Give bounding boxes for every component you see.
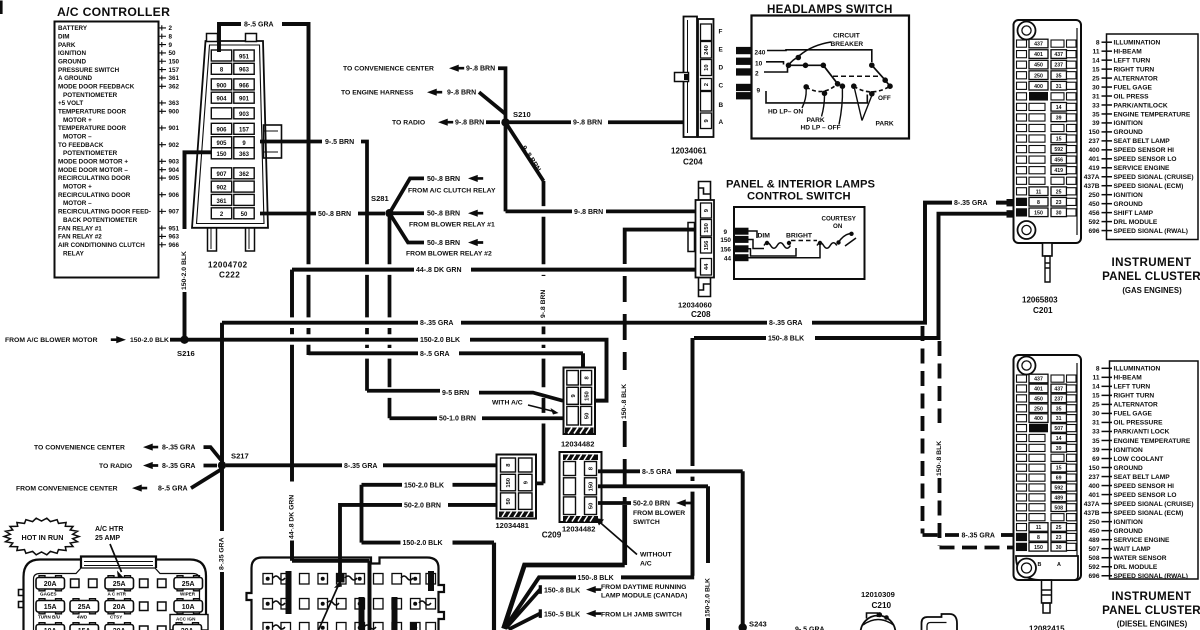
- svg-text:250: 250: [1034, 406, 1043, 412]
- svg-text:A/C CONTROLLER: A/C CONTROLLER: [57, 5, 170, 19]
- svg-text:50-1.0 BRN: 50-1.0 BRN: [439, 416, 476, 423]
- wire without A/C branch vertical x624 bottom: [504, 505, 625, 629]
- svg-text:401: 401: [1088, 492, 1099, 499]
- C204 pin letters: [719, 29, 724, 127]
- arrow from convenience: [132, 485, 147, 492]
- cluster C201 stem: [1043, 243, 1053, 256]
- svg-text:10: 10: [755, 61, 763, 68]
- svg-text:FROM BLOWER RELAY #2: FROM BLOWER RELAY #2: [406, 250, 492, 257]
- arrow blower switch: [676, 499, 691, 506]
- svg-text:MODE DOOR MOTOR +: MODE DOOR MOTOR +: [58, 159, 128, 166]
- wire 150-.8 BLK to fan: [505, 577, 577, 628]
- svg-text:50-.8 BRN: 50-.8 BRN: [427, 176, 460, 183]
- wire S281 branch blower relay 2: [390, 213, 425, 242]
- svg-text:150-2.0 BLK: 150-2.0 BLK: [403, 540, 443, 547]
- arrow TO ENGINE HARNESS: [427, 89, 442, 96]
- HOT IN RUN starburst: [4, 518, 79, 555]
- bulkhead terminal dots: [266, 577, 418, 630]
- svg-text:456: 456: [1054, 158, 1063, 164]
- svg-text:C222: C222: [219, 271, 240, 280]
- svg-text:14: 14: [1056, 436, 1062, 442]
- wire stub to S217: [204, 447, 222, 460]
- svg-text:F: F: [719, 29, 723, 36]
- svg-text:9-.8 BRN: 9-.8 BRN: [466, 66, 495, 73]
- svg-text:8: 8: [1037, 200, 1040, 206]
- callout PARK right V: [855, 89, 872, 121]
- svg-text:A C HTR: A C HTR: [108, 591, 127, 596]
- svg-text:B: B: [1038, 562, 1042, 568]
- svg-text:C210: C210: [872, 601, 892, 610]
- svg-text:456: 456: [1088, 210, 1099, 217]
- splice S216 junction dot: [180, 336, 188, 344]
- fuse 10A RADIO: [174, 601, 203, 613]
- svg-text:437A: 437A: [1084, 174, 1100, 181]
- svg-text:400: 400: [1034, 416, 1043, 422]
- svg-text:SHIFT LAMP: SHIFT LAMP: [1114, 210, 1154, 217]
- svg-text:MODE DOOR FEEDBACK: MODE DOOR FEEDBACK: [58, 83, 135, 90]
- svg-text:150-.8 BLK: 150-.8 BLK: [936, 441, 943, 476]
- svg-text:14: 14: [1092, 57, 1100, 64]
- svg-text:TO FEEDBACK: TO FEEDBACK: [58, 142, 104, 149]
- svg-text:RECIRCULATING DOOR: RECIRCULATING DOOR: [58, 192, 131, 199]
- svg-text:SPEED SENSOR HI: SPEED SENSOR HI: [1114, 483, 1175, 490]
- svg-text:25: 25: [1092, 402, 1100, 409]
- terminal row1 c: [140, 579, 149, 588]
- svg-text:FROM BLOWER RELAY #1: FROM BLOWER RELAY #1: [409, 221, 495, 228]
- svg-text:PARK: PARK: [58, 42, 76, 49]
- bulkhead internal callout arrow: [319, 585, 339, 630]
- svg-text:157: 157: [169, 67, 180, 74]
- svg-text:8-.5 GRA: 8-.5 GRA: [158, 486, 188, 493]
- svg-text:9: 9: [757, 88, 761, 95]
- svg-text:SEAT BELT LAMP: SEAT BELT LAMP: [1114, 138, 1171, 145]
- svg-text:GROUND: GROUND: [1114, 201, 1144, 208]
- svg-text:9-.8 BRN: 9-.8 BRN: [574, 209, 603, 216]
- diesel cluster wire tab pin150: [1017, 543, 1027, 550]
- svg-text:50: 50: [241, 212, 248, 218]
- svg-text:907: 907: [216, 172, 227, 178]
- wire stub radio to S217: [204, 464, 218, 468]
- wire 44-.8 DK GRN to C208 pin 44: [471, 268, 697, 272]
- svg-text:SEAT BELT LAMP: SEAT BELT LAMP: [1114, 474, 1171, 481]
- wire 8-.35 GRA continues right: [461, 321, 767, 325]
- svg-text:69: 69: [1092, 456, 1100, 463]
- svg-text:COURTESY: COURTESY: [822, 215, 857, 222]
- wire 9-.5 BRN vertical x367: [361, 142, 367, 265]
- svg-text:450: 450: [1034, 396, 1043, 402]
- svg-text:15: 15: [1092, 393, 1100, 400]
- svg-text:237: 237: [1054, 63, 1063, 69]
- svg-text:250: 250: [1088, 519, 1099, 526]
- wire vertical x543 down to 12034481 pin 9: [533, 181, 544, 483]
- svg-text:400: 400: [1088, 147, 1099, 154]
- svg-text:489: 489: [1054, 495, 1063, 501]
- gas cluster pin list: [1084, 40, 1194, 235]
- svg-text:C: C: [719, 83, 724, 90]
- svg-text:508: 508: [1088, 555, 1099, 562]
- svg-text:44: 44: [704, 263, 710, 270]
- svg-text:B: B: [719, 102, 724, 109]
- wire 9-.8 BRN S210 to C204: [509, 120, 571, 124]
- headlamps internal wire 2: [764, 68, 788, 73]
- svg-text:8-.35 GRA: 8-.35 GRA: [420, 320, 453, 327]
- arrow convenience lower: [143, 444, 158, 451]
- svg-text:25: 25: [1056, 525, 1062, 531]
- svg-text:39: 39: [1056, 115, 1062, 121]
- svg-text:31: 31: [1092, 93, 1100, 100]
- svg-text:ALTERNATOR: ALTERNATOR: [1114, 402, 1159, 409]
- fuse block inner border: [34, 568, 200, 630]
- cluster C201 gas terminal rows: [1017, 39, 1077, 216]
- svg-text:50-2.0 BRN: 50-2.0 BRN: [404, 502, 441, 509]
- svg-text:LOW COOLANT: LOW COOLANT: [1114, 456, 1164, 463]
- terminal row3 b: [158, 626, 167, 630]
- svg-text:951: 951: [169, 225, 180, 232]
- svg-text:8-.35 GRA: 8-.35 GRA: [954, 200, 987, 207]
- svg-text:8: 8: [169, 33, 173, 40]
- svg-text:LEFT TURN: LEFT TURN: [1114, 57, 1151, 64]
- callout PARK left: [822, 96, 825, 117]
- svg-text:150: 150: [1088, 129, 1099, 136]
- svg-text:IGNITION: IGNITION: [1114, 192, 1144, 199]
- svg-text:SPEED SIGNAL (RWAL): SPEED SIGNAL (RWAL): [1114, 573, 1189, 580]
- svg-text:50-.8 BRN: 50-.8 BRN: [427, 240, 460, 247]
- svg-text:S281: S281: [371, 194, 390, 203]
- svg-text:44: 44: [724, 255, 732, 262]
- svg-text:RECIRCULATING DOOR FEED-: RECIRCULATING DOOR FEED-: [58, 209, 151, 216]
- wire into cluster pin 8: [996, 201, 1013, 205]
- svg-text:DRL MODULE: DRL MODULE: [1114, 219, 1158, 226]
- svg-text:8: 8: [1037, 535, 1040, 541]
- headlamps internal wire 9 bottom rail: [766, 91, 867, 103]
- wire diagonal S210 down-right: [506, 122, 544, 181]
- wire S281 vertical down x389: [388, 213, 392, 418]
- label 150-.8 BLK daytime stub bar: [539, 585, 542, 594]
- svg-text:IGNITION: IGNITION: [1114, 519, 1144, 526]
- svg-text:157: 157: [239, 128, 250, 134]
- fuse 25A 4WD: [70, 601, 99, 613]
- svg-text:POTENTIOMETER: POTENTIOMETER: [63, 150, 118, 157]
- svg-text:MODE DOOR MOTOR –: MODE DOOR MOTOR –: [58, 167, 128, 174]
- wire diagonal stub to S210: [479, 92, 506, 114]
- connector 12034482 with A/C body: [564, 368, 596, 435]
- wire 150-.8 BLK vertical x692.5: [691, 338, 695, 576]
- svg-text:FROM A/C CLUTCH RELAY: FROM A/C CLUTCH RELAY: [408, 187, 496, 194]
- panel lamps internal wires: [749, 231, 821, 258]
- svg-text:437A: 437A: [1084, 501, 1100, 508]
- callout line WITHOUT A/C: [599, 522, 637, 555]
- wire into 12034481 pin 8: [383, 463, 498, 467]
- svg-text:12065803: 12065803: [1022, 296, 1058, 305]
- svg-text:2: 2: [704, 83, 710, 86]
- svg-text:450: 450: [1088, 201, 1099, 208]
- headlamps switch box: [752, 16, 910, 139]
- terminal row3 a: [140, 626, 149, 630]
- svg-text:INSTRUMENT: INSTRUMENT: [1112, 256, 1192, 269]
- fuse block outline: [24, 560, 207, 630]
- svg-text:419: 419: [1088, 165, 1099, 172]
- svg-text:BACK POTENTIOMETER: BACK POTENTIOMETER: [63, 217, 138, 224]
- svg-text:363: 363: [169, 100, 180, 107]
- svg-text:OFF: OFF: [878, 95, 891, 102]
- svg-text:4WD: 4WD: [77, 614, 88, 619]
- connector C208 lower extension: [699, 278, 711, 297]
- dashed wire into diesel pin 8: [1001, 533, 1016, 537]
- svg-text:FROM DAYTIME RUNNING: FROM DAYTIME RUNNING: [601, 584, 686, 591]
- svg-text:PANEL CLUSTER: PANEL CLUSTER: [1102, 270, 1200, 283]
- svg-text:150-.5 BLK: 150-.5 BLK: [544, 611, 580, 618]
- svg-text:12034482: 12034482: [562, 525, 595, 534]
- svg-text:8-.35 GRA: 8-.35 GRA: [162, 463, 195, 470]
- diesel cluster stem: [1042, 580, 1052, 603]
- 12034482 upper hatch strip: [565, 428, 594, 434]
- svg-text:8-.35 GRA: 8-.35 GRA: [769, 320, 802, 327]
- svg-text:150: 150: [584, 391, 590, 401]
- wire to S281 dot: [358, 212, 385, 216]
- svg-text:400: 400: [1034, 84, 1043, 90]
- svg-text:25A: 25A: [113, 581, 126, 588]
- connector C222 body: [192, 41, 268, 228]
- svg-text:FAN RELAY #2: FAN RELAY #2: [58, 234, 102, 241]
- svg-text:250: 250: [1034, 73, 1043, 79]
- svg-text:WIPER: WIPER: [180, 591, 196, 596]
- svg-text:507: 507: [1088, 546, 1099, 553]
- svg-text:12034482: 12034482: [561, 439, 594, 448]
- svg-text:12082415: 12082415: [1029, 625, 1065, 630]
- svg-text:9-5 BRN: 9-5 BRN: [442, 390, 469, 397]
- svg-text:MOTOR +: MOTOR +: [63, 117, 92, 124]
- svg-text:437: 437: [1054, 387, 1063, 393]
- label 150-.5 BLK jamb bar: [539, 609, 542, 618]
- svg-text:450: 450: [1088, 528, 1099, 535]
- dome lamp C210 bulb: [861, 616, 896, 630]
- svg-text:8-.5 GRA: 8-.5 GRA: [642, 469, 672, 476]
- headlamps dashed link: [833, 75, 881, 77]
- svg-text:PARK: PARK: [876, 120, 894, 127]
- 12034482 upper terminal boxes: [567, 371, 592, 426]
- panel lamps terminals: [735, 228, 749, 235]
- svg-text:SERVICE ENGINE: SERVICE ENGINE: [1114, 537, 1171, 544]
- wire C208 pin 150 corner: [625, 230, 697, 238]
- svg-text:GROUND: GROUND: [1114, 528, 1144, 535]
- svg-text:903: 903: [239, 112, 250, 118]
- svg-text:GROUND: GROUND: [1114, 465, 1144, 472]
- svg-text:IGNITION: IGNITION: [58, 50, 86, 57]
- page edge mark top-left: [0, 1, 3, 15]
- svg-text:69: 69: [1056, 476, 1062, 482]
- diesel cluster pin list: [1084, 366, 1194, 580]
- svg-text:WAIT LAMP: WAIT LAMP: [1114, 546, 1152, 553]
- svg-text:8-.5 GRA: 8-.5 GRA: [420, 351, 450, 358]
- svg-text:IGNITION: IGNITION: [1114, 120, 1144, 127]
- svg-text:PARK: PARK: [807, 117, 825, 124]
- dome lamp tab: [867, 613, 878, 619]
- svg-text:WATER SENSOR: WATER SENSOR: [1114, 555, 1167, 562]
- svg-text:901: 901: [239, 97, 250, 103]
- fuse row3 partial c: [105, 625, 134, 630]
- svg-text:901: 901: [169, 125, 180, 132]
- svg-text:15: 15: [1056, 137, 1062, 143]
- svg-text:30: 30: [1092, 411, 1100, 418]
- fuse 25A A/C HTR: [105, 578, 134, 590]
- headlamps internal wire 10: [766, 62, 784, 65]
- svg-text:DRL MODULE: DRL MODULE: [1114, 564, 1158, 571]
- svg-text:35: 35: [1056, 406, 1062, 412]
- wire stub from convenience to S217: [191, 470, 221, 489]
- svg-text:437: 437: [1034, 42, 1043, 48]
- terminal row1 d: [158, 579, 167, 588]
- svg-text:8-.35 GRA: 8-.35 GRA: [162, 445, 195, 452]
- svg-text:ALTERNATOR: ALTERNATOR: [1114, 75, 1159, 82]
- svg-text:12034061: 12034061: [671, 147, 707, 156]
- instrument cluster C201 gas outer shell: [1014, 20, 1082, 243]
- svg-text:GROUND: GROUND: [58, 58, 86, 65]
- svg-text:44-.8 DK GRN: 44-.8 DK GRN: [289, 495, 296, 539]
- wire 50-1.0 BRN horizontal: [390, 416, 438, 420]
- wire 50-.8 BRN C222 pin 50 to S281: [260, 212, 316, 216]
- svg-text:50: 50: [506, 498, 512, 504]
- svg-text:GAGES: GAGES: [40, 591, 57, 596]
- svg-text:8-.35 GRA: 8-.35 GRA: [344, 463, 377, 470]
- wire into pin 150: [453, 483, 499, 487]
- svg-text:A GROUND: A GROUND: [58, 75, 93, 82]
- svg-text:150-.8 BLK: 150-.8 BLK: [621, 384, 628, 419]
- wire 50-2.0 BRN stub from C209 pin 50: [598, 501, 631, 505]
- svg-text:437B: 437B: [1084, 510, 1100, 517]
- svg-text:906: 906: [169, 192, 180, 199]
- panel lamps courtesy switch: [838, 234, 850, 244]
- callout line WITH A/C: [528, 405, 554, 412]
- arrow clutch relay: [468, 175, 483, 182]
- headlamps switch contact dots: [803, 63, 809, 69]
- C222 bottom legs: [208, 228, 217, 251]
- svg-text:SPEED SENSOR LO: SPEED SENSOR LO: [1114, 492, 1177, 499]
- connector 12034482 C209 body: [560, 452, 602, 522]
- svg-text:450: 450: [1034, 63, 1043, 69]
- svg-text:PANEL & INTERIOR LAMPS: PANEL & INTERIOR LAMPS: [726, 179, 876, 191]
- arrow radio lower: [143, 462, 158, 469]
- svg-text:INSTRUMENT: INSTRUMENT: [1112, 590, 1192, 603]
- svg-text:SPEED SIGNAL (CRUISE): SPEED SIGNAL (CRUISE): [1114, 174, 1194, 181]
- svg-text:SWITCH: SWITCH: [633, 519, 660, 526]
- wire 8-.35 GRA horizontal main: [222, 321, 418, 325]
- svg-text:PARK/ANTI LOCK: PARK/ANTI LOCK: [1114, 429, 1170, 436]
- svg-text:902: 902: [216, 186, 227, 192]
- svg-text:156: 156: [720, 247, 731, 254]
- callout HD LP OFF: [839, 89, 842, 125]
- svg-text:362: 362: [239, 172, 250, 178]
- svg-text:ILLUMINATION: ILLUMINATION: [1114, 40, 1161, 47]
- ACC IGN sub box: [170, 615, 208, 630]
- svg-text:CONTROL SWITCH: CONTROL SWITCH: [747, 191, 851, 203]
- svg-text:LAMP MODULE (CANADA): LAMP MODULE (CANADA): [601, 593, 687, 600]
- svg-text:DIM: DIM: [58, 33, 70, 40]
- connector C204 left body: [684, 17, 698, 138]
- svg-text:TURN B/U: TURN B/U: [38, 614, 61, 619]
- svg-text:10A: 10A: [182, 604, 195, 611]
- svg-text:BREAKER: BREAKER: [831, 41, 864, 48]
- svg-text:50: 50: [584, 413, 590, 419]
- wire into C204 pin A: [608, 120, 700, 124]
- svg-text:WITH A/C: WITH A/C: [492, 400, 523, 407]
- svg-text:39: 39: [1092, 120, 1100, 127]
- 12034481 hatch strip: [499, 512, 534, 518]
- svg-text:HI-BEAM: HI-BEAM: [1114, 375, 1143, 382]
- svg-text:25: 25: [1092, 75, 1100, 82]
- svg-text:44-.8 DK GRN: 44-.8 DK GRN: [416, 267, 462, 274]
- svg-text:20A: 20A: [113, 604, 126, 611]
- svg-text:FROM A/C BLOWER MOTOR: FROM A/C BLOWER MOTOR: [5, 337, 98, 344]
- svg-text:35: 35: [1092, 111, 1100, 118]
- svg-text:150-2.0 BLK: 150-2.0 BLK: [404, 482, 444, 489]
- svg-text:TEMPERATURE DOOR: TEMPERATURE DOOR: [58, 125, 127, 132]
- svg-text:362: 362: [169, 83, 180, 90]
- wire into C208 pin 9: [606, 210, 697, 214]
- svg-text:900: 900: [169, 109, 180, 116]
- wire 150-.8 BLK bottom horizontal: [621, 575, 694, 579]
- svg-text:150: 150: [1088, 465, 1099, 472]
- svg-text:900: 900: [216, 83, 227, 89]
- bulkhead terminal grid: [263, 574, 436, 630]
- C222 latch bracket: [264, 125, 282, 158]
- svg-text:150: 150: [720, 237, 731, 244]
- bulkhead wiggle wires: [273, 576, 285, 580]
- svg-text:437: 437: [1054, 52, 1063, 58]
- cluster diesel terminal rows: [1017, 374, 1077, 551]
- panel lamps rheostat DIM: [764, 243, 790, 249]
- svg-text:35: 35: [1056, 73, 1062, 79]
- splice S210 junction dot: [501, 118, 509, 126]
- cluster C201 wire tabs: [1007, 199, 1015, 206]
- svg-text:15: 15: [1056, 466, 1062, 472]
- svg-text:9: 9: [723, 229, 727, 236]
- svg-text:401: 401: [1034, 52, 1043, 58]
- svg-text:12004702: 12004702: [208, 261, 248, 270]
- svg-text:SPEED SIGNAL (RWAL): SPEED SIGNAL (RWAL): [1114, 228, 1189, 235]
- svg-text:963: 963: [239, 68, 250, 74]
- diesel cluster wire tab pin8: [1017, 533, 1027, 540]
- svg-text:SPEED SIGNAL (ECM): SPEED SIGNAL (ECM): [1114, 510, 1184, 517]
- svg-text:FROM LH JAMB SWITCH: FROM LH JAMB SWITCH: [601, 611, 682, 618]
- svg-text:33: 33: [1092, 102, 1100, 109]
- svg-text:33: 33: [1092, 429, 1100, 436]
- svg-text:363: 363: [239, 152, 250, 158]
- svg-text:HD LP – OFF: HD LP – OFF: [801, 124, 841, 131]
- svg-text:437: 437: [1034, 377, 1043, 383]
- svg-text:903: 903: [169, 159, 180, 166]
- svg-text:SPEED SIGNAL (ECM): SPEED SIGNAL (ECM): [1114, 183, 1184, 190]
- diesel cluster bottom hole: [1017, 559, 1036, 578]
- svg-text:507: 507: [1054, 426, 1063, 432]
- svg-text:+5 VOLT: +5 VOLT: [58, 100, 83, 107]
- wire 44-.8 DK GRN horizontal: [292, 268, 414, 272]
- fuse block top tab: [81, 557, 156, 569]
- arrow TO CONVENIENCE CENTER: [449, 65, 464, 72]
- circuit breaker callout: [800, 42, 832, 56]
- callout HD LP ON: [802, 90, 806, 109]
- dome lamp contacts: [877, 612, 882, 617]
- svg-text:ENGINE TEMPERATURE: ENGINE TEMPERATURE: [1114, 438, 1191, 445]
- svg-text:RELAY: RELAY: [63, 250, 85, 257]
- svg-text:150-.8 BLK: 150-.8 BLK: [544, 587, 580, 594]
- svg-text:150-2.0 BLK: 150-2.0 BLK: [130, 337, 169, 344]
- svg-text:150: 150: [216, 152, 227, 158]
- svg-text:30: 30: [1056, 545, 1062, 551]
- connector C208 body: [696, 200, 715, 278]
- svg-text:31: 31: [1056, 416, 1062, 422]
- terminal row2 a: [140, 602, 149, 611]
- gas cluster pin list box: [1107, 34, 1199, 240]
